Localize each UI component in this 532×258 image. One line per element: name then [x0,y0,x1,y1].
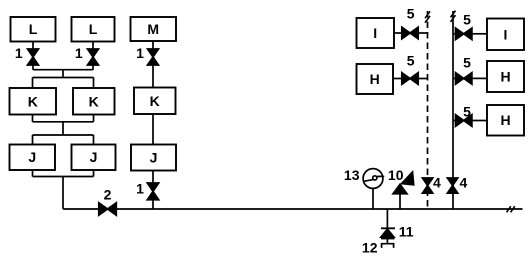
svg-text:1: 1 [136,45,144,61]
wire valve 5d to tank H right 1 [472,77,487,79]
svg-text:J: J [28,149,36,165]
svg-text:H: H [370,71,380,87]
wire header to valve 5d [453,77,456,79]
svg-text:1: 1 [75,45,83,61]
wire bus5 down to main header [62,177,64,210]
pipe break (solid header) [451,11,456,22]
tank J1 [10,145,56,171]
pipe break (dashed header) [425,11,430,22]
svg-text:5: 5 [463,55,471,71]
svg-text:K: K [28,93,38,109]
wire bus3 to bus4 [62,122,64,135]
gauge 13 circle [363,169,383,189]
svg-text:J: J [150,150,158,166]
wire valve 5a to dashed header [418,32,427,34]
svg-text:1: 1 [15,45,23,61]
wire bus2 to K2 [93,78,95,89]
valve 4b [447,178,457,193]
svg-text:L: L [29,21,38,37]
valve 2 [99,203,117,215]
wire gauge 13 to main header [372,188,374,209]
bus2 wire [33,77,94,79]
tank J3 [131,145,176,171]
drain valve 11 base bar [381,238,395,240]
svg-text:L: L [89,21,98,37]
wire bus1 to bus2 [62,70,64,78]
wire K1 to bus3 [32,115,34,122]
valve 1d [147,183,158,200]
relief valve 10 lower triangle [393,184,407,194]
valve 1b [88,49,99,65]
svg-text:I: I [504,26,508,42]
relief valve 10 stem wire [399,194,401,210]
svg-text:5: 5 [463,11,471,27]
wire bus2 to K1 [32,78,34,89]
valve 5d [456,73,472,85]
bus5 wire [33,176,94,178]
tank L1 [11,17,56,42]
svg-text:1: 1 [136,180,144,196]
wire L2 to valve 1b [92,42,94,50]
svg-text:5: 5 [407,53,415,69]
drain valve 11 triangle [381,229,394,237]
svg-text:4: 4 [433,175,441,191]
wire valve 5b to dashed header [418,78,427,80]
wire M to valve 1c [152,41,154,49]
svg-text:10: 10 [388,167,404,183]
svg-text:K: K [89,93,99,109]
svg-text:5: 5 [407,6,415,22]
svg-text:H: H [500,69,510,85]
valve 5e [456,115,472,127]
relief valve 10 upper triangle [402,172,414,185]
valve 5a [402,27,418,39]
funnel 12 [382,244,394,248]
wire I-left to valve 5a [394,32,402,34]
valve 1a [28,49,39,65]
svg-text:I: I [373,25,377,41]
svg-text:12: 12 [362,239,378,255]
svg-text:M: M [147,21,159,37]
drain valve 11 stem wire [386,209,388,228]
bus1 wire [33,69,93,71]
tank J2 [72,145,116,171]
drain valve 11 seat bar [381,227,395,229]
svg-text:4: 4 [460,175,468,191]
svg-text:2: 2 [104,186,112,202]
valve 5c [456,28,472,40]
svg-text:H: H [500,112,510,128]
svg-text:J: J [90,149,98,165]
wire K2 to bus3 [93,115,95,122]
wire K3 to J3 [152,114,154,145]
tank K1 [10,88,57,115]
wire H-left to valve 5b [393,78,402,80]
valve 4a [422,178,432,193]
wire valve 5c to tank I right [472,33,487,35]
valve 1c [148,49,159,65]
wire J2 to bus5 [93,170,95,177]
bus4 wire [33,134,94,136]
wire valve 1a to bus1 [32,65,34,70]
wire J1 to bus5 [32,170,34,177]
svg-text:11: 11 [399,224,414,240]
tank K2 [73,88,115,115]
wire J3 to valve 1d [152,171,154,184]
wire L1 to valve 1a [32,42,34,50]
solid header pipe [452,11,454,209]
bus3 wire [33,121,94,123]
tank I left [357,18,395,48]
valve 5b [402,73,418,85]
tank K3 [134,88,176,115]
tank H right 1 [487,61,524,92]
tank H left [357,64,394,94]
gauge 13 internal squiggle [364,176,385,182]
wire valve 5e to tank H right 2 [472,120,487,122]
dashed header pipe [427,11,429,209]
svg-text:K: K [150,93,160,109]
wire valve 11 to funnel 12 [386,239,388,243]
wire header to valve 5c [453,33,456,35]
wire bus4 to J2 [93,135,95,145]
tank M [131,17,177,41]
wire valve 1c to tank K3 [152,65,154,88]
wire valve 1d to main header [152,200,154,209]
svg-text:13: 13 [344,167,360,183]
tank H right 2 [487,105,524,136]
main header pipe [63,208,523,210]
tank L2 [72,17,115,42]
pipe break (main header) [507,206,515,212]
wire valve 1b to bus1 [92,65,94,70]
wire header to valve 5e [453,120,456,122]
wire bus4 to J1 [32,135,34,145]
tank I right [487,19,524,51]
svg-text:5: 5 [463,103,471,119]
